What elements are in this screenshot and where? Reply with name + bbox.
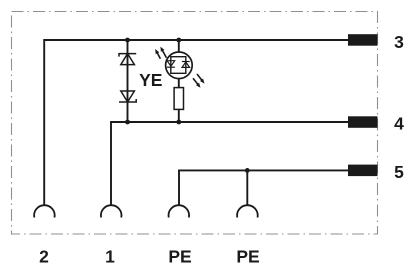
svg-text:5: 5 [394, 162, 404, 182]
svg-text:3: 3 [394, 32, 404, 52]
svg-text:PE: PE [236, 246, 259, 266]
svg-text:PE: PE [168, 246, 191, 266]
svg-text:4: 4 [394, 114, 404, 134]
svg-text:2: 2 [39, 246, 49, 266]
svg-text:1: 1 [105, 246, 115, 266]
svg-text:YE: YE [139, 70, 162, 90]
